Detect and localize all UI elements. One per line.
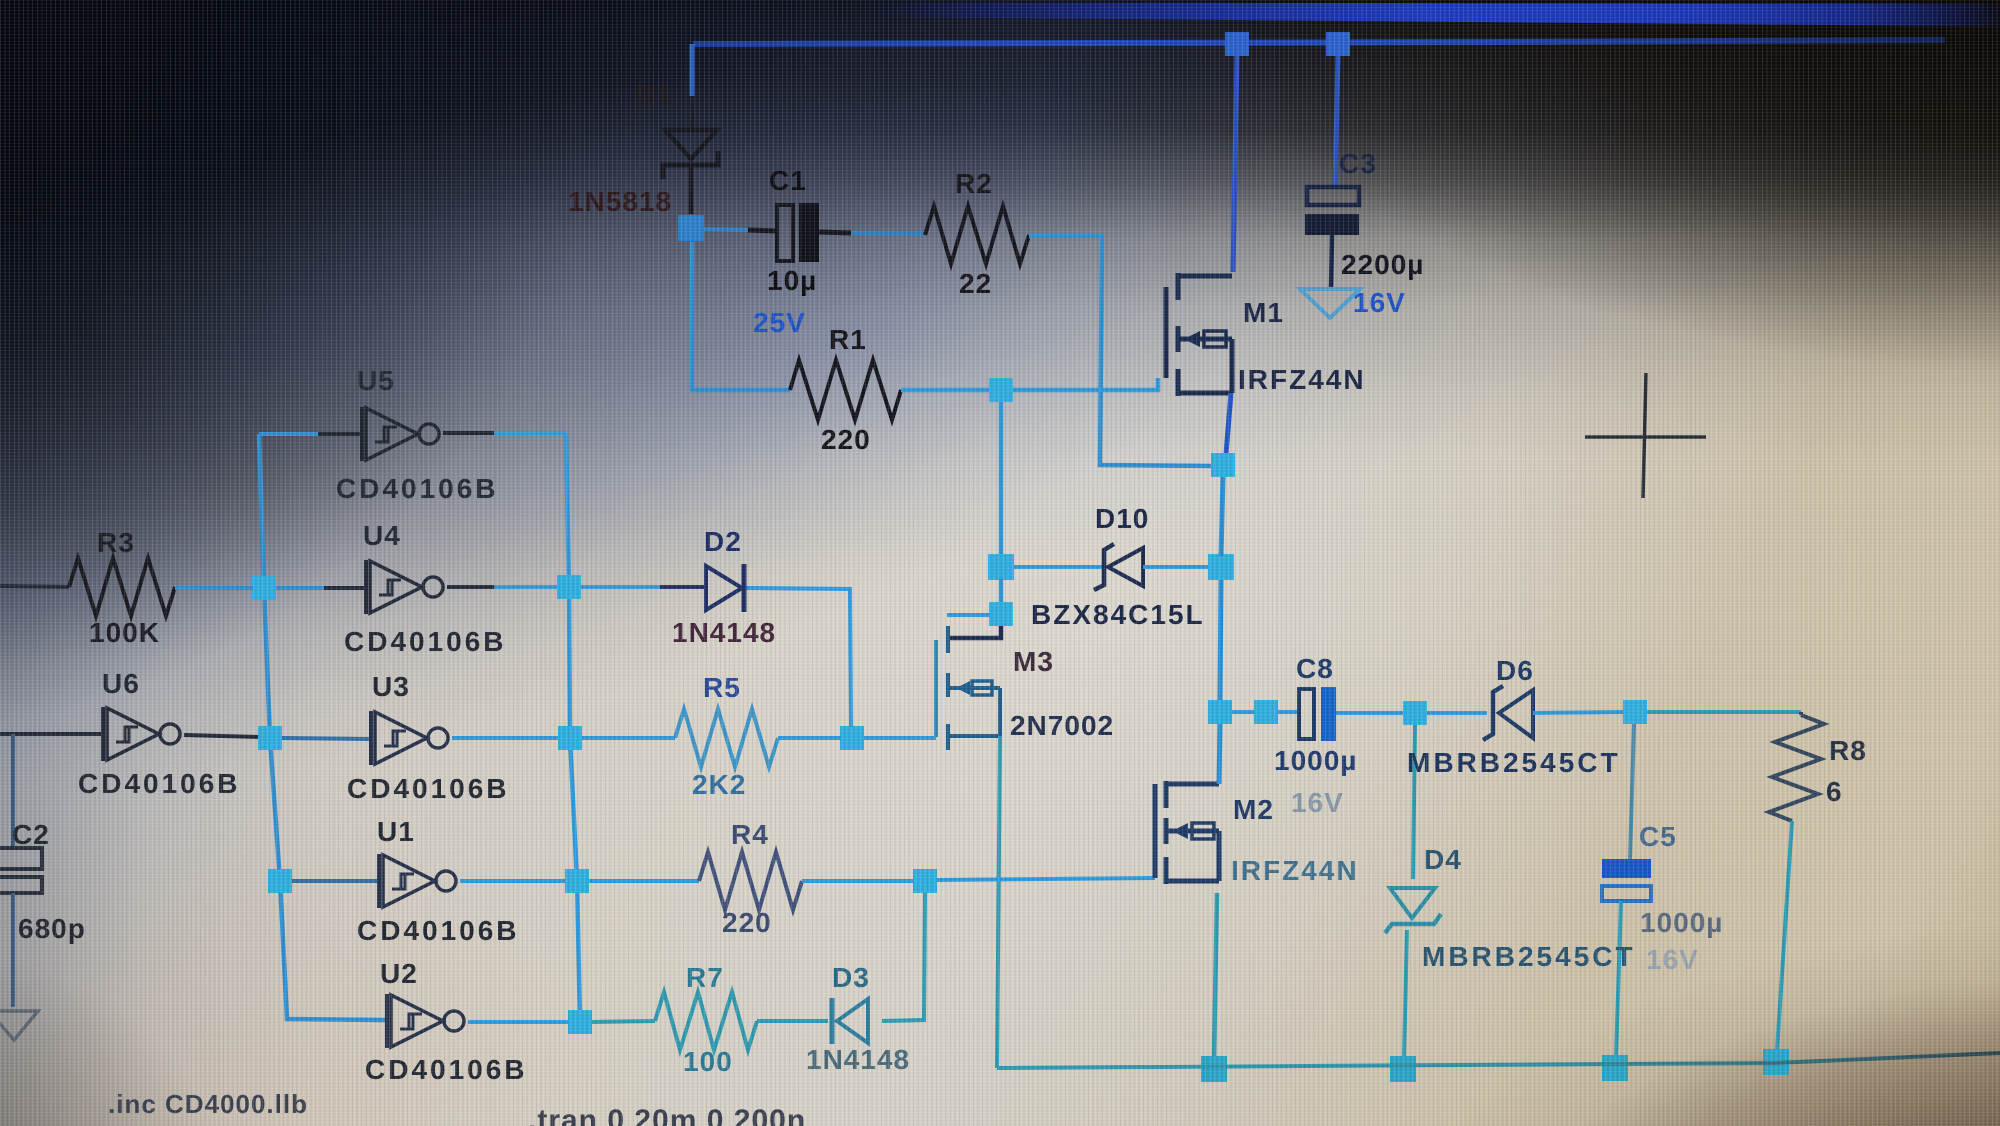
wire D1 node down to R1 — [692, 242, 790, 390]
wire D4 from node down — [1413, 725, 1415, 879]
junction D4 / bottom rail — [1390, 1056, 1416, 1082]
wire right bus (inverter outputs net) — [566, 433, 580, 1022]
resistor R1 220 — [790, 360, 901, 420]
svg-text:MBRB2545CT: MBRB2545CT — [1407, 747, 1621, 778]
wire U3 output — [452, 736, 558, 740]
svg-text:C3: C3 — [1339, 148, 1377, 179]
junction M2 source / bottom rail — [1201, 1056, 1227, 1082]
wire junction to C1 — [702, 229, 748, 230]
svg-text:2200µ: 2200µ — [1341, 249, 1424, 280]
svg-text:C1: C1 — [769, 165, 807, 196]
inverter U4 — [366, 560, 443, 614]
svg-text:1000µ: 1000µ — [1640, 907, 1723, 938]
svg-text:M1: M1 — [1243, 297, 1284, 328]
wire R4 to junction — [802, 879, 914, 883]
svg-text:.tran 0 20m 0 200n: .tran 0 20m 0 200n — [528, 1104, 806, 1126]
svg-text:R8: R8 — [1829, 735, 1867, 766]
wire D1 anode up to top rail — [690, 44, 695, 96]
junction right bus / U2 row — [568, 1010, 592, 1034]
inverter U1 — [379, 854, 456, 908]
svg-text:M3: M3 — [1013, 646, 1054, 677]
inverter U5 — [362, 407, 439, 461]
ground below C2 — [0, 1011, 38, 1040]
wire junction down to D3 — [882, 893, 925, 1021]
diode D2 1N4148 — [706, 564, 744, 612]
svg-text:CD40106B: CD40106B — [336, 473, 499, 504]
svg-text:D6: D6 — [1496, 655, 1534, 686]
junction right bus / U1 row — [565, 869, 589, 893]
svg-text:U5: U5 — [357, 365, 395, 396]
wire M2 source down to bottom rail — [1214, 893, 1217, 1058]
svg-text:U4: U4 — [363, 520, 401, 551]
svg-text:16V: 16V — [1646, 944, 1699, 975]
wire node to D6 — [1427, 711, 1487, 715]
svg-text:1000µ: 1000µ — [1274, 745, 1357, 776]
wire left bus (U6 output net) — [259, 434, 387, 1020]
svg-text:2K2: 2K2 — [692, 769, 746, 800]
svg-text:U2: U2 — [380, 958, 418, 989]
capacitor C5 1000u 16V — [1602, 859, 1651, 878]
svg-text:D2: D2 — [704, 526, 742, 557]
svg-text:16V: 16V — [1353, 287, 1406, 318]
svg-text:C5: C5 — [1639, 821, 1677, 852]
junction R4 / M2 gate node — [913, 869, 937, 893]
svg-text:CD40106B: CD40106B — [357, 915, 520, 946]
wire gate node down to D10 node — [999, 402, 1004, 556]
wire U5 output — [443, 431, 494, 435]
wire R8 down to bottom rail — [1777, 821, 1792, 1051]
wire C2 top — [11, 734, 15, 848]
svg-text:CD40106B: CD40106B — [365, 1054, 528, 1085]
svg-text:IRFZ44N: IRFZ44N — [1231, 855, 1359, 886]
svg-text:220: 220 — [722, 907, 772, 938]
svg-text:U1: U1 — [377, 816, 415, 847]
wire C8 to D6 node — [1336, 711, 1404, 715]
wire junction to C8 — [1278, 710, 1299, 714]
inverter U3 — [371, 711, 448, 765]
wire M1 source down to junction — [1226, 393, 1231, 454]
junction R8 / bottom rail — [1763, 1049, 1789, 1075]
wire R3 left — [0, 586, 69, 587]
junction C3 / top rail — [1326, 32, 1350, 56]
wire junction to M2 gate — [937, 878, 1155, 880]
capacitor C1 10u 25V polarized — [777, 205, 793, 261]
svg-text:1N4148: 1N4148 — [672, 617, 776, 648]
svg-text:6: 6 — [1826, 776, 1843, 807]
svg-text:IRFZ44N: IRFZ44N — [1238, 364, 1366, 395]
wire M3 source down to bottom rail — [997, 736, 1000, 1068]
junction R1 / gate node — [989, 378, 1013, 402]
wire U4 output to D2 anode — [581, 585, 660, 589]
transistor M2 IRFZ44N — [1155, 781, 1219, 884]
junction left bus / R3 row — [252, 576, 276, 600]
wire U4 input — [276, 586, 324, 590]
junction M1 drain / top rail — [1225, 32, 1249, 56]
svg-text:1N4148: 1N4148 — [806, 1044, 910, 1075]
wire U5 input — [259, 432, 318, 436]
junction right bus / U3 row — [558, 726, 582, 750]
capacitor C3 2200u 16V — [1307, 187, 1359, 205]
resistor R3 100K — [69, 558, 175, 616]
junction left bus / U1 row — [268, 869, 292, 893]
svg-text:C8: C8 — [1296, 653, 1334, 684]
svg-text:680p: 680p — [18, 913, 86, 944]
inverter U6 — [103, 707, 180, 761]
wire M3 gate from R5/D2 node — [863, 736, 936, 740]
resistor R4 220 — [699, 852, 802, 910]
wire R1 to junction — [901, 388, 990, 393]
transistor M3 2N7002 — [936, 626, 1000, 750]
svg-text:R1: R1 — [829, 324, 867, 355]
wire R5 input — [582, 736, 675, 740]
svg-text:220: 220 — [821, 424, 871, 455]
wire to second junction — [1232, 710, 1254, 714]
wire U6 input — [0, 732, 103, 736]
svg-text:.inc CD4000.llb: .inc CD4000.llb — [108, 1089, 308, 1119]
svg-text:22: 22 — [959, 268, 992, 299]
wire top supply rail — [693, 40, 1945, 44]
wire M3 drain — [950, 626, 1001, 638]
wire C3 to ground — [1331, 235, 1332, 289]
svg-text:U3: U3 — [372, 671, 410, 702]
junction C8 wire start — [1254, 700, 1278, 724]
wire D10 left node to zener — [1014, 565, 1106, 569]
diode D6 MBRB2545CT — [1483, 686, 1533, 740]
wire C5 down to bottom rail — [1616, 901, 1621, 1057]
resistor R5 2K2 — [675, 709, 778, 767]
svg-text:BZX84C15L: BZX84C15L — [1031, 599, 1205, 630]
wire U1 output — [460, 879, 565, 883]
transistor M1 IRFZ44N — [1166, 273, 1232, 396]
junction D1 cathode / C1 node — [678, 215, 704, 241]
svg-text:D4: D4 — [1424, 844, 1462, 875]
wire U2 out to R7 — [592, 1021, 655, 1022]
svg-text:MBRB2545CT: MBRB2545CT — [1422, 941, 1636, 972]
svg-text:CD40106B: CD40106B — [347, 773, 510, 804]
wire R7 to D3 — [757, 1019, 828, 1023]
wire C1 to R2 — [819, 232, 851, 233]
resistor R2 22 — [925, 206, 1029, 264]
wire R5 to node — [778, 736, 841, 740]
svg-text:C2: C2 — [12, 819, 50, 850]
diode D1 1N5818 schottky — [663, 130, 718, 214]
wire M1 gate from R1/R2 node — [1013, 378, 1158, 390]
diode D4 MBRB2545CT (vertical) — [1385, 888, 1441, 933]
crosshair cursor — [1585, 373, 1706, 498]
wire U3 input — [282, 738, 371, 739]
wire R2 to corner down to M1 source node — [1029, 236, 1212, 466]
wire D6 to C5 node — [1533, 712, 1624, 713]
junction R5/D2 node — [840, 726, 864, 750]
wire R3 right to bus — [175, 586, 253, 590]
wire U4 output — [447, 585, 494, 589]
junction D6 / C5 node — [1623, 700, 1647, 724]
svg-text:10µ: 10µ — [767, 265, 817, 296]
wire M1 source node down to M2 drain — [1221, 477, 1223, 556]
wire D10 to right vertical — [1143, 565, 1210, 569]
wire M1 drain from top rail — [1233, 56, 1237, 272]
junction C5 / bottom rail — [1602, 1055, 1628, 1081]
resistor R7 100 — [655, 992, 757, 1050]
wire D10 node down to M3 drain node — [999, 578, 1004, 606]
junction right bus / U4 row — [557, 575, 581, 599]
svg-text:CD40106B: CD40106B — [78, 768, 241, 799]
svg-text:CD40106B: CD40106B — [344, 626, 507, 657]
svg-text:25V: 25V — [753, 307, 806, 338]
zener D10 BZX84C15L — [1094, 544, 1143, 590]
svg-text:U6: U6 — [102, 668, 140, 699]
wire D4 down to bottom rail — [1404, 930, 1407, 1058]
wire C2 bottom — [11, 893, 15, 1007]
junction D10 right — [1208, 554, 1234, 580]
diode D3 1N4148 — [832, 998, 868, 1044]
junction M1 source node — [1211, 453, 1235, 477]
svg-text:16V: 16V — [1291, 787, 1344, 818]
svg-text:R4: R4 — [731, 819, 769, 850]
wire M2 drain from node — [1219, 724, 1220, 784]
inverter U2 — [387, 994, 464, 1048]
junction M3 drain node — [989, 602, 1013, 626]
svg-text:100: 100 — [683, 1046, 733, 1077]
svg-text:R7: R7 — [686, 962, 724, 993]
wire U1 input — [292, 879, 379, 883]
wire U2 output — [468, 1020, 568, 1024]
ground below C3 — [1300, 289, 1360, 318]
junction D10 left — [988, 554, 1014, 580]
svg-text:M2: M2 — [1233, 794, 1274, 825]
wire node to R8 corner — [1647, 710, 1801, 714]
junction C8 / D4 node — [1403, 701, 1427, 725]
wire D2 output corner down — [744, 588, 851, 727]
svg-text:D1: D1 — [636, 79, 674, 110]
resistor R8 6 (vertical) — [1799, 712, 1803, 715]
svg-text:D10: D10 — [1095, 503, 1149, 534]
wire C5 from node down — [1630, 724, 1634, 859]
svg-text:2N7002: 2N7002 — [1010, 710, 1114, 741]
wire U1 out to R4 — [589, 879, 699, 883]
svg-text:D3: D3 — [832, 962, 870, 993]
junction left bus / U6 out — [258, 726, 282, 750]
capacitor C2 680p — [0, 848, 42, 869]
svg-text:R2: R2 — [955, 168, 993, 199]
capacitor C8 1000u 16V — [1299, 689, 1314, 739]
svg-text:1N5818: 1N5818 — [568, 186, 672, 217]
wire U6 output to left bus — [184, 735, 258, 737]
wire stub junction to M3 — [947, 613, 990, 617]
svg-text:R3: R3 — [97, 527, 135, 558]
junction M2 drain node — [1208, 700, 1232, 724]
svg-text:100K: 100K — [89, 617, 160, 648]
svg-text:R5: R5 — [703, 672, 741, 703]
wire C3 from top rail down — [1335, 56, 1338, 187]
